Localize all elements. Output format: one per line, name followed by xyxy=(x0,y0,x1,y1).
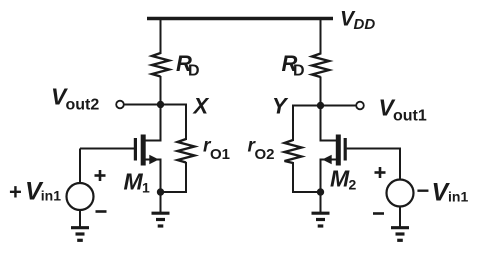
svg-text:D: D xyxy=(188,63,200,80)
svg-text:in1: in1 xyxy=(41,188,61,204)
svg-text:1: 1 xyxy=(142,180,150,196)
svg-text:O1: O1 xyxy=(210,146,230,163)
svg-text:Y: Y xyxy=(272,94,289,119)
svg-text:DD: DD xyxy=(354,16,376,33)
svg-text:−: − xyxy=(417,178,430,203)
svg-text:D: D xyxy=(293,63,305,80)
svg-text:+: + xyxy=(9,180,22,205)
svg-text:O2: O2 xyxy=(255,146,275,163)
svg-text:out1: out1 xyxy=(393,108,427,125)
svg-text:2: 2 xyxy=(349,177,357,193)
svg-text:M: M xyxy=(124,169,144,195)
svg-text:in1: in1 xyxy=(448,189,468,205)
svg-text:out2: out2 xyxy=(66,97,100,114)
svg-text:X: X xyxy=(192,94,210,119)
svg-text:M: M xyxy=(330,166,350,192)
